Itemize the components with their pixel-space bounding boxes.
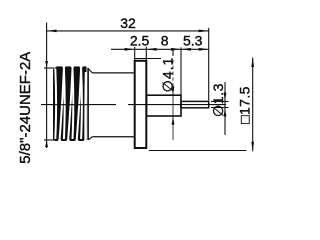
extension line flange top edge	[135, 58, 161, 60]
centerline (left segment)	[41, 104, 116, 106]
square 17.5 top arrowhead	[251, 58, 254, 68]
dimension 32 left arrowhead	[47, 30, 57, 33]
extension line pin tip	[208, 28, 210, 101]
svg-text:∅4.1: ∅4.1	[160, 57, 176, 93]
square mounting flange (side view)	[135, 61, 147, 148]
thread runout end face	[87, 68, 89, 140]
centerline (right segment)	[128, 104, 226, 106]
dia 1.3 bottom arrowhead	[224, 108, 227, 117]
dia 4.1 top arrowhead	[172, 87, 175, 96]
insulator bushing dia 4.1	[147, 95, 182, 116]
body chamfer top	[89, 69, 92, 73]
thread OD bottom arrowhead	[45, 140, 48, 147]
dia 1.3 top arrowhead	[224, 93, 227, 102]
svg-text:∅1.3: ∅1.3	[210, 83, 226, 117]
dia 4.1 dimension line top tick	[172, 51, 174, 57]
svg-text:8: 8	[161, 33, 169, 49]
extension line pin bottom edge	[211, 107, 229, 109]
square 17.5 dimension line	[252, 58, 254, 152]
extension line flange left face	[134, 47, 136, 61]
body barrel top edge	[92, 72, 134, 74]
dia 1.3 dimension line	[224, 82, 226, 135]
extension line flange right face	[145, 47, 147, 61]
square 17.5 bottom arrowhead	[251, 142, 254, 152]
extension line pin top edge	[211, 101, 229, 103]
arrowhead toward flange right face (2.5 / 8)	[147, 48, 157, 51]
svg-text:2.5: 2.5	[130, 33, 150, 49]
svg-text:□17.5: □17.5	[236, 86, 252, 124]
dimension row line for 2.5 / 8 / 5.3	[111, 48, 209, 50]
arrowhead 5.3 left end	[181, 48, 191, 51]
extension line flange bottom edge	[149, 150, 247, 152]
svg-text:32: 32	[120, 15, 136, 31]
body chamfer bottom	[89, 137, 92, 140]
body barrel bottom edge	[92, 136, 134, 138]
dimension 32 line	[47, 30, 209, 32]
thread crest top extension line	[44, 67, 54, 69]
arrowhead 5.3 right end	[199, 48, 209, 51]
thread OD dimension line (shared with 32 extension)	[46, 23, 48, 149]
extension line bushing right face	[180, 47, 182, 95]
svg-text:5.3: 5.3	[183, 33, 203, 49]
threaded coupling body 5/8"-24UNEF thread band	[53, 66, 87, 142]
thread crest bottom extension line	[44, 139, 57, 141]
arrowhead 8 right end	[171, 48, 181, 51]
dimension 32 right arrowhead	[199, 30, 209, 33]
dia 4.1 bottom arrowhead	[172, 116, 175, 125]
dia 4.1 dimension line lower part	[172, 87, 174, 140]
svg-text:5/8"-24UNEF-2A: 5/8"-24UNEF-2A	[17, 52, 34, 164]
thread OD top arrowhead	[45, 61, 48, 68]
arrowhead toward flange left face (2.5)	[125, 48, 135, 51]
center contact pin dia 1.3	[181, 101, 209, 107]
dia 4.1 dimension line dashed upper part	[172, 60, 174, 87]
